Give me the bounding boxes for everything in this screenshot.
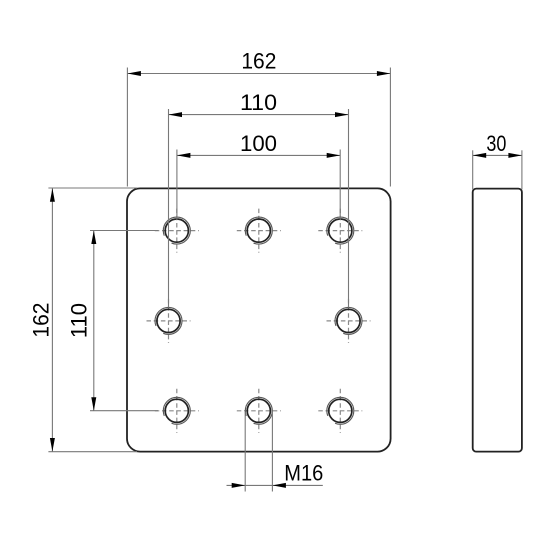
hole H7 bottom-center bore circle xyxy=(247,399,270,422)
dimension 162 left line xyxy=(51,188,53,451)
hole H6 bottom-left thread circle xyxy=(163,397,190,424)
dimension 162 top line xyxy=(127,73,390,75)
dimension 110 left extension line bottom xyxy=(90,410,158,412)
dimension 110 left line xyxy=(93,231,95,411)
svg-text:100: 100 xyxy=(240,131,277,156)
dimension 110 top extension line left xyxy=(168,109,170,308)
dimension 162 top extension line right xyxy=(389,68,391,187)
dimension 100 top arrow right xyxy=(327,153,341,158)
dimension 100 top line xyxy=(177,154,340,156)
hole H6 bottom-left bore circle xyxy=(165,399,188,422)
dimension 162 left extension line bottom xyxy=(48,451,137,453)
hole H1 top-left centerlines xyxy=(155,209,199,253)
dimension M16 arrow right xyxy=(272,483,286,488)
plate front view outline xyxy=(127,188,391,451)
hole H7 bottom-center centerlines xyxy=(237,389,281,433)
hole H8 bottom-right bore circle xyxy=(329,399,352,422)
dimension 100 top arrow left xyxy=(177,153,191,158)
dimension 110 top arrow right xyxy=(335,112,349,117)
dimension M16 extension line left xyxy=(244,412,246,492)
hole H1 top-left thread circle xyxy=(163,217,190,244)
hole H3 top-right bore circle xyxy=(329,219,352,242)
hole H1 top-left bore circle xyxy=(165,219,188,242)
dimension 162 left extension line top xyxy=(48,187,137,189)
hole H8 bottom-right centerlines xyxy=(318,389,362,433)
dimension 162 top arrow left xyxy=(127,71,140,76)
dimension 30 arrow left xyxy=(473,153,487,158)
dimension 110 left arrow bottom xyxy=(91,397,96,411)
dimension 110 top extension line right xyxy=(348,109,350,308)
svg-text:162: 162 xyxy=(28,303,53,338)
dimension M16 line between extension lines xyxy=(245,484,272,486)
hole H2 top-center bore circle xyxy=(247,219,270,242)
dimension 162 top extension line left xyxy=(126,68,128,187)
hole H4 mid-left centerlines xyxy=(147,299,191,343)
dimension 100 top extension line right xyxy=(339,150,341,221)
dimension M16 arrow left xyxy=(232,483,246,488)
hole H5 mid-right thread circle xyxy=(335,307,362,334)
hole H2 top-center thread circle xyxy=(245,217,272,244)
hole H5 mid-right bore circle xyxy=(337,309,360,332)
hole H4 mid-left bore circle xyxy=(157,309,180,332)
hole H3 top-right thread circle xyxy=(327,217,354,244)
hole H6 bottom-left centerlines xyxy=(155,389,199,433)
dimension 30 arrow right xyxy=(508,153,522,158)
dimension 110 top line xyxy=(169,114,349,116)
dimension M16 leader line left xyxy=(227,484,246,486)
svg-text:30: 30 xyxy=(486,131,506,156)
hole H8 bottom-right thread circle xyxy=(327,397,354,424)
dimension 110 left extension line top xyxy=(90,230,158,232)
dimension M16 extension line right xyxy=(271,412,273,492)
dimension 30 extension line left xyxy=(472,150,474,189)
hole H5 mid-right centerlines xyxy=(327,299,371,343)
dimension 162 left arrow top xyxy=(50,188,55,202)
dimension M16 leader line right xyxy=(272,484,322,486)
dimension 100 top extension line left xyxy=(176,150,178,221)
hole H3 top-right centerlines xyxy=(318,209,362,253)
dimension 162 top arrow right xyxy=(377,71,391,76)
svg-text:162: 162 xyxy=(241,49,276,74)
dimension 30 line xyxy=(473,154,522,156)
dimension 162 left arrow bottom xyxy=(50,438,55,452)
hole H2 top-center centerlines xyxy=(237,209,281,253)
dimension 110 top arrow left xyxy=(169,112,183,117)
hole H4 mid-left thread circle xyxy=(155,307,182,334)
hole H7 bottom-center thread circle xyxy=(245,397,272,424)
svg-text:110: 110 xyxy=(240,90,277,115)
svg-text:110: 110 xyxy=(66,303,91,338)
svg-text:M16: M16 xyxy=(284,460,323,485)
dimension 110 left arrow top xyxy=(91,231,96,245)
side view outline xyxy=(473,189,522,452)
dimension 30 extension line right xyxy=(521,150,523,189)
